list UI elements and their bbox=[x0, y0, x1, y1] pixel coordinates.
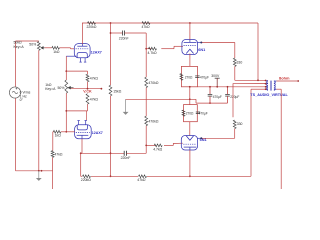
svg-text:12AX7: 12AX7 bbox=[92, 131, 103, 135]
label T1 bbox=[250, 93, 287, 97]
ground GND2 bbox=[123, 99, 129, 115]
wire to R12 bbox=[146, 144, 156, 146]
wire R8 corner drop bbox=[52, 132, 54, 151]
wire R9 bottom exit bbox=[52, 157, 54, 189]
svg-text:270Ω: 270Ω bbox=[185, 75, 193, 79]
wire U4 anode right bbox=[200, 137, 234, 139]
node VCK probe dot bbox=[101, 88, 103, 90]
node pot1-gnd junction bbox=[38, 170, 43, 172]
node Y junction bbox=[189, 22, 191, 24]
node rail-plate junction bbox=[110, 152, 112, 154]
resistor R13 330 bbox=[233, 58, 242, 66]
svg-text:1kΩ: 1kΩ bbox=[55, 134, 62, 138]
label 8ohm bbox=[279, 77, 290, 81]
wire U1 cathode path bbox=[66, 56, 76, 80]
wire box1 to B+ rail bbox=[189, 86, 191, 99]
wire secondary out bbox=[277, 80, 300, 82]
wire U2 grid from R8 bbox=[53, 131, 54, 133]
resistor R15 270 bbox=[182, 110, 194, 116]
wire R16 up to xfmr bbox=[233, 83, 265, 117]
svg-text:47kΩ: 47kΩ bbox=[142, 25, 150, 29]
wire 15k rail down bbox=[110, 96, 112, 176]
wire U2 plate drop bbox=[81, 139, 82, 154]
svg-text:TS_AUDIO_VIRTUAL: TS_AUDIO_VIRTUAL bbox=[250, 93, 287, 97]
ground GND1 bbox=[36, 171, 42, 181]
node box leads junction bbox=[189, 98, 191, 100]
svg-text:8ohm: 8ohm bbox=[279, 77, 290, 81]
svg-text:300V: 300V bbox=[211, 74, 220, 78]
capacitor C6 470uF bbox=[196, 112, 200, 114]
svg-text:470µF: 470µF bbox=[199, 112, 208, 116]
wire pot2 bottom bbox=[65, 93, 67, 132]
svg-text:470kΩ: 470kΩ bbox=[148, 120, 158, 124]
label pot2 bbox=[45, 83, 64, 91]
potentiometer R6 1k bbox=[65, 80, 74, 93]
svg-text:50%: 50% bbox=[29, 43, 36, 47]
label pot1 bbox=[14, 41, 37, 49]
resistor R4 1k bbox=[52, 46, 60, 54]
svg-text:47kΩ: 47kΩ bbox=[90, 76, 99, 80]
svg-text:15kΩ: 15kΩ bbox=[113, 89, 122, 93]
node X junction bbox=[110, 22, 112, 24]
bias network R14 C3 box bbox=[181, 66, 197, 86]
wire secondary return bbox=[277, 89, 282, 189]
wire B+ right drop bbox=[257, 23, 259, 80]
label V1 values bbox=[20, 91, 31, 103]
label U2 12AX7 bbox=[92, 131, 103, 135]
wire to R10 bbox=[146, 48, 151, 50]
svg-text:Key=A: Key=A bbox=[14, 45, 25, 49]
wire U3 cathode bbox=[189, 54, 191, 67]
label C6 bbox=[199, 112, 208, 116]
svg-text:470µF: 470µF bbox=[213, 95, 222, 99]
resistor R11 15k bbox=[109, 85, 122, 96]
wire 330 column upper bbox=[234, 43, 236, 59]
wire R13 to xfmr bbox=[235, 66, 265, 81]
svg-text:220µF: 220µF bbox=[230, 95, 239, 99]
wire C1 to grids vertical bbox=[145, 33, 147, 153]
wire R10 to U3 grid bbox=[161, 46, 183, 48]
svg-text:47kΩ: 47kΩ bbox=[54, 153, 63, 157]
svg-text:50%: 50% bbox=[58, 86, 65, 90]
triode U2 12AX7 bbox=[75, 121, 92, 139]
transformer T1 bbox=[265, 80, 277, 91]
capacitor C1 220nF bbox=[110, 31, 147, 36]
label V.CK bbox=[83, 90, 92, 94]
resistor R8 1k bbox=[53, 130, 61, 137]
wire cathode to R5 bbox=[66, 71, 87, 74]
wire pot1 wiper to R4 bbox=[45, 47, 52, 49]
wire box2 to U4 cathode bbox=[189, 122, 191, 136]
svg-text:47kΩ: 47kΩ bbox=[90, 97, 99, 101]
svg-text:470µF: 470µF bbox=[200, 75, 209, 79]
wire U2 plate coupling bbox=[80, 152, 124, 154]
tube U3 6N1 bbox=[182, 40, 201, 55]
wire pot1 bottom drop bbox=[38, 50, 40, 171]
wire R7 bottom bbox=[66, 104, 87, 111]
node VCK junction bbox=[87, 88, 89, 90]
resistor R19 470k bbox=[145, 77, 159, 88]
resistor R2 47k bbox=[142, 22, 151, 30]
svg-text:4.7kΩ: 4.7kΩ bbox=[153, 147, 162, 151]
resistor R14 270 bbox=[180, 74, 193, 81]
node cathode junction bbox=[65, 70, 67, 72]
wire bottom rail bbox=[81, 153, 251, 176]
node grid1 junction bbox=[145, 48, 147, 50]
wire left rail bbox=[16, 41, 53, 171]
wire top rail bbox=[82, 22, 258, 24]
svg-text:220kΩ: 220kΩ bbox=[81, 178, 91, 182]
resistor R7 47k bbox=[86, 94, 98, 104]
svg-text:220nF: 220nF bbox=[121, 156, 131, 160]
node pot2-grid junction bbox=[65, 131, 67, 133]
resistor R9 47k bbox=[51, 151, 63, 158]
wire VCK bbox=[70, 88, 101, 90]
svg-text:330: 330 bbox=[237, 60, 243, 64]
wire mid ground bbox=[126, 99, 228, 103]
capacitor C4 470uF bbox=[208, 86, 213, 104]
label C4 bbox=[213, 95, 222, 99]
wire U3 anode right bbox=[200, 42, 235, 44]
svg-text:V.CK: V.CK bbox=[83, 90, 92, 94]
wire B+ rail bbox=[198, 86, 266, 88]
resistor R5 47k bbox=[86, 74, 98, 81]
label C5 bbox=[230, 95, 239, 99]
wire R4 to U1 grid bbox=[60, 48, 75, 49]
label C1 bbox=[119, 36, 129, 40]
capacitor C2 220nF bbox=[124, 151, 146, 156]
svg-text:47kΩ: 47kΩ bbox=[137, 178, 146, 182]
svg-text:1kΩ: 1kΩ bbox=[53, 50, 60, 54]
wire U4 bottom drop bbox=[189, 150, 191, 177]
bias network R15 C6 box bbox=[184, 105, 198, 122]
tube U4 6N1 bbox=[181, 136, 200, 151]
label C2 bbox=[121, 156, 131, 160]
resistor R17 220k bbox=[81, 175, 91, 182]
svg-text:270Ω: 270Ω bbox=[186, 112, 194, 116]
svg-text:6N1: 6N1 bbox=[198, 48, 205, 52]
resistor R10 4.7k bbox=[148, 47, 157, 55]
resistor R20 470k bbox=[145, 116, 159, 126]
wire U2 cathode riser bbox=[85, 111, 87, 121]
wire R12 to U4 grid bbox=[164, 143, 183, 145]
power 300V bbox=[211, 74, 220, 88]
capacitor C3 470uF bbox=[195, 76, 199, 78]
capacitor C5 220uF bbox=[225, 86, 230, 103]
wire U3 plate top bbox=[189, 23, 191, 40]
triode U1 12AX7 bbox=[74, 44, 90, 63]
node pot2-R7 junction bbox=[65, 110, 67, 112]
label U4 6N1 bbox=[200, 138, 207, 142]
svg-text:220nF: 220nF bbox=[119, 36, 129, 40]
svg-text:470kΩ: 470kΩ bbox=[148, 81, 158, 85]
node grid2 junction bbox=[145, 145, 147, 147]
AC source V1 bbox=[9, 87, 20, 98]
node rail-gnd junction bbox=[110, 175, 112, 177]
resistor R12 4.7k bbox=[153, 144, 162, 151]
label U3 6N1 bbox=[198, 48, 205, 52]
svg-text:12AX7: 12AX7 bbox=[91, 50, 102, 54]
resistor R18 47k bbox=[137, 175, 146, 182]
label C3 bbox=[200, 75, 209, 79]
resistor R16 330 bbox=[233, 120, 242, 129]
resistor R1 220k bbox=[87, 22, 97, 30]
wire node X drop bbox=[110, 23, 112, 85]
wire box2 top bbox=[189, 99, 191, 104]
label U1 12AX7 bbox=[91, 50, 102, 54]
potentiometer R3 50k bbox=[37, 42, 44, 51]
wire U1 plate riser bbox=[82, 23, 84, 44]
svg-text:220kΩ: 220kΩ bbox=[87, 25, 97, 29]
svg-text:4.7kΩ: 4.7kΩ bbox=[148, 51, 157, 55]
wire R8 to U2 grid bbox=[61, 131, 75, 133]
wire 330 column lower bbox=[234, 129, 236, 139]
wire pot1 top bbox=[16, 40, 39, 42]
svg-text:330: 330 bbox=[237, 122, 243, 126]
svg-text:Key=A: Key=A bbox=[45, 87, 56, 91]
wire bottom to xfmr return bbox=[251, 89, 265, 176]
wire R5 to VCK node bbox=[87, 82, 89, 89]
